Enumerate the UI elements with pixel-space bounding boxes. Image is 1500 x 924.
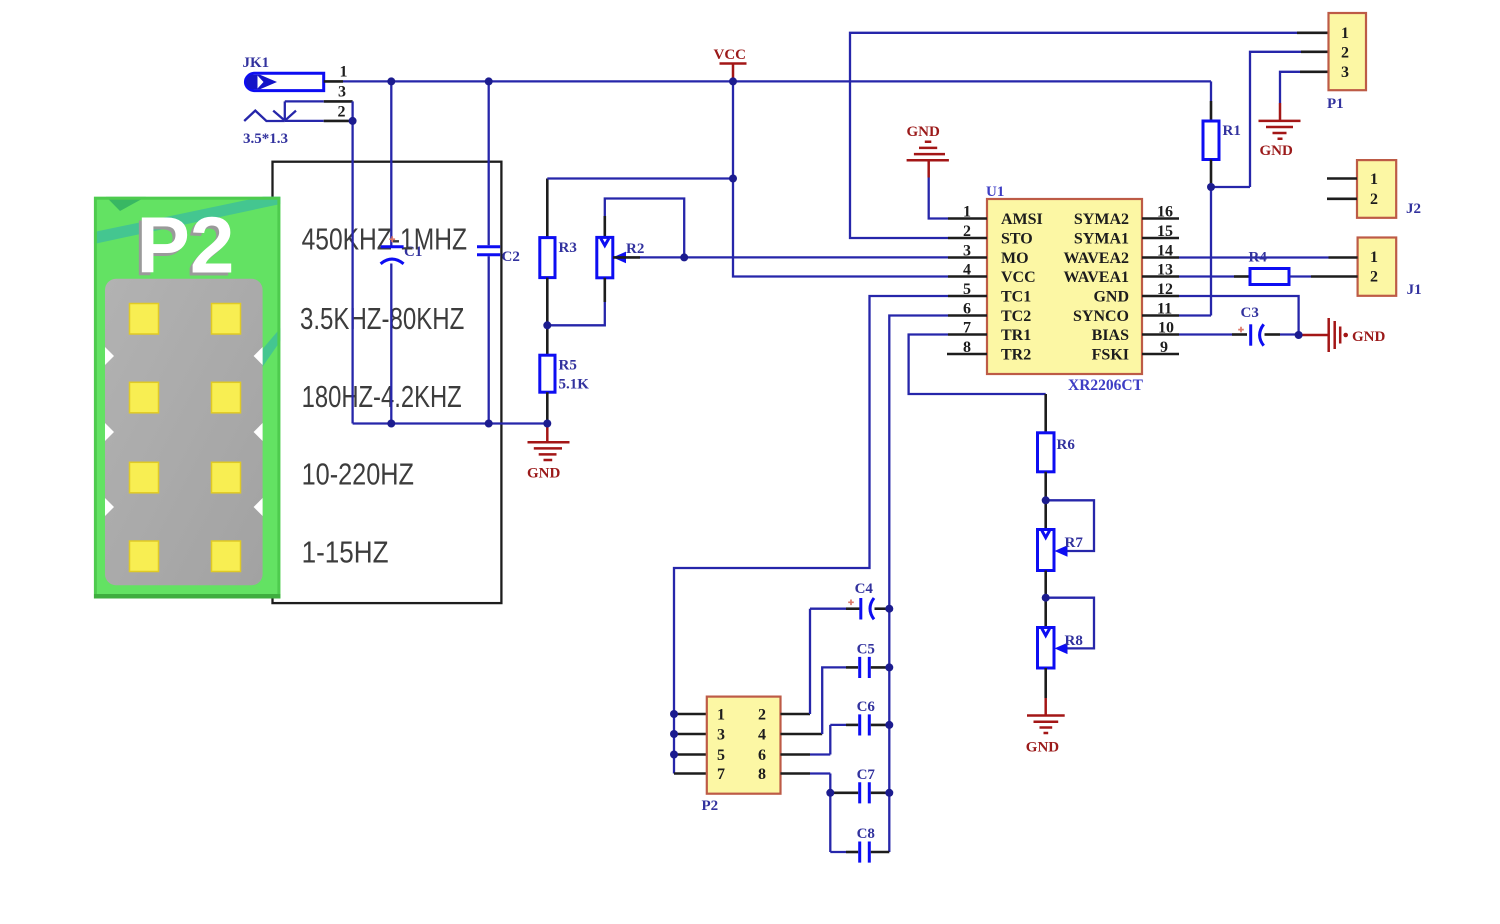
svg-text:STO: STO [1001, 231, 1033, 248]
svg-text:WAVEA1: WAVEA1 [1064, 269, 1130, 286]
svg-text:P2: P2 [702, 798, 719, 814]
svg-text:P1: P1 [1327, 96, 1344, 112]
svg-text:R8: R8 [1065, 633, 1083, 649]
svg-text:10-220HZ: 10-220HZ [302, 457, 414, 492]
svg-text:3.5*1.3: 3.5*1.3 [243, 131, 288, 147]
svg-text:C4: C4 [855, 581, 874, 597]
svg-text:U1: U1 [986, 184, 1004, 200]
svg-text:R6: R6 [1057, 437, 1076, 453]
svg-text:C6: C6 [857, 699, 876, 715]
svg-text:TR1: TR1 [1001, 327, 1031, 344]
svg-text:JK1: JK1 [243, 55, 270, 71]
svg-text:TR2: TR2 [1001, 347, 1031, 364]
svg-text:SYMA2: SYMA2 [1074, 211, 1129, 228]
svg-text:GND: GND [527, 466, 561, 482]
svg-text:GND: GND [1026, 740, 1060, 756]
svg-text:GND: GND [1093, 289, 1129, 306]
svg-text:SYNCO: SYNCO [1073, 308, 1129, 325]
svg-text:GND: GND [907, 124, 941, 140]
svg-text:SYMA1: SYMA1 [1074, 231, 1129, 248]
svg-text:2: 2 [338, 104, 346, 121]
svg-text:8: 8 [758, 766, 766, 783]
svg-text:J1: J1 [1407, 282, 1422, 298]
svg-text:WAVEA2: WAVEA2 [1064, 250, 1130, 267]
svg-text:7: 7 [717, 766, 725, 783]
svg-text:VCC: VCC [714, 47, 747, 63]
svg-text:VCC: VCC [1001, 269, 1036, 286]
svg-text:1: 1 [340, 64, 348, 81]
svg-text:MO: MO [1001, 250, 1029, 267]
svg-text:TC1: TC1 [1001, 289, 1031, 306]
svg-text:3: 3 [717, 727, 725, 744]
svg-text:AMSI: AMSI [1001, 211, 1043, 228]
svg-text:4: 4 [758, 727, 766, 744]
svg-text:FSKI: FSKI [1092, 347, 1129, 364]
svg-text:J2: J2 [1406, 201, 1421, 217]
svg-text:C8: C8 [857, 826, 875, 842]
svg-text:BIAS: BIAS [1092, 327, 1129, 344]
svg-text:C7: C7 [857, 767, 876, 783]
svg-text:R2: R2 [626, 241, 644, 257]
svg-text:R5: R5 [559, 358, 577, 374]
svg-text:2: 2 [1370, 269, 1378, 286]
svg-text:3: 3 [338, 84, 346, 101]
svg-text:2: 2 [1341, 45, 1349, 62]
svg-text:2: 2 [1370, 191, 1378, 208]
svg-text:1: 1 [1341, 25, 1349, 42]
svg-text:3: 3 [1341, 64, 1349, 81]
svg-text:450KHZ-1MHZ: 450KHZ-1MHZ [302, 222, 467, 257]
svg-text:XR2206CT: XR2206CT [1068, 377, 1144, 394]
svg-text:P2: P2 [137, 201, 235, 290]
svg-text:C5: C5 [857, 642, 875, 658]
svg-text:GND: GND [1260, 143, 1294, 159]
svg-text:5: 5 [717, 747, 725, 764]
svg-text:R7: R7 [1065, 535, 1084, 551]
svg-text:C3: C3 [1241, 305, 1259, 321]
svg-text:1: 1 [1370, 249, 1378, 266]
svg-text:1-15HZ: 1-15HZ [302, 535, 389, 570]
svg-text:TC2: TC2 [1001, 308, 1031, 325]
svg-text:R1: R1 [1223, 123, 1241, 139]
svg-text:180HZ-4.2KHZ: 180HZ-4.2KHZ [302, 379, 462, 414]
svg-text:1: 1 [717, 707, 725, 724]
svg-text:2: 2 [758, 707, 766, 724]
svg-text:3.5KHZ-80KHZ: 3.5KHZ-80KHZ [300, 301, 464, 336]
svg-text:R3: R3 [559, 240, 577, 256]
svg-text:GND: GND [1352, 329, 1386, 345]
svg-text:C2: C2 [502, 249, 520, 265]
svg-text:6: 6 [758, 747, 766, 764]
svg-text:1: 1 [1370, 171, 1378, 188]
svg-text:5.1K: 5.1K [559, 377, 590, 393]
svg-text:R4: R4 [1249, 250, 1268, 266]
